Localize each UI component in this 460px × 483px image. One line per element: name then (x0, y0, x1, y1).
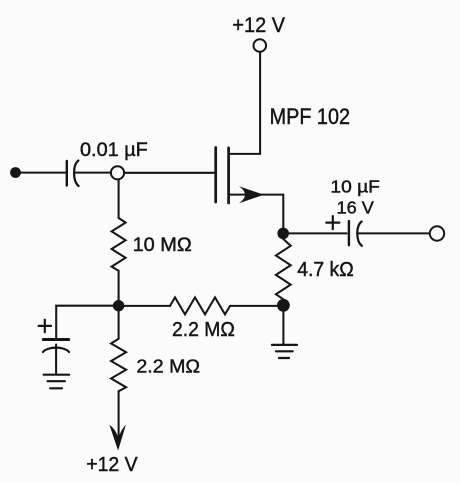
wire C1 to gate node (75, 172, 111, 174)
output terminal (430, 226, 444, 240)
wire junction down to R2 (118, 311, 120, 339)
R2 value label 2.2 MΩ (136, 356, 200, 377)
wire node C to ground (282, 311, 284, 344)
svg-text:+12 V: +12 V (86, 453, 138, 476)
svg-text:10 µF: 10 µF (330, 176, 380, 196)
svg-text:0.01 µF: 0.01 µF (80, 140, 148, 161)
ground (left) (44, 375, 69, 389)
label +12 V top (232, 14, 285, 37)
wire C2 to output (358, 232, 429, 234)
supply arrow (down) (109, 425, 126, 451)
wire gate lead (124, 172, 214, 174)
node junction A (dot) (113, 300, 124, 311)
Q1 label MPF 102 (270, 104, 350, 129)
svg-text:10 MΩ: 10 MΩ (133, 235, 192, 256)
capacitor C3 electrolytic (39, 320, 69, 352)
capacitor C2 polarity plus (326, 216, 339, 229)
C2 rating label 16 V (337, 198, 374, 218)
wire input to C1 (19, 172, 66, 174)
capacitor C2 (349, 221, 362, 246)
resistor R3 2.2 Mohm horizontal (170, 297, 230, 314)
svg-text:4.7 kΩ: 4.7 kΩ (297, 259, 354, 281)
resistor R4 4.7 kohm (276, 239, 291, 299)
resistor R2 2.2 Mohm vertical (111, 339, 126, 392)
ground (right) (272, 345, 297, 358)
node B source junction (dot) (277, 228, 289, 240)
label +12 V bottom (86, 453, 138, 476)
wire C3 to ground (55, 345, 57, 375)
wire junction to C3 (56, 306, 113, 338)
svg-text:MPF 102: MPF 102 (270, 104, 350, 129)
R1 value label 10 MΩ (133, 235, 192, 256)
resistor R1 10 Mohm (112, 218, 126, 271)
transistor Q1 MPF 102 (216, 148, 284, 204)
node C bottom junction (dot) (277, 299, 290, 312)
svg-text:16 V: 16 V (337, 198, 374, 218)
wire gate node down to R1 (118, 180, 120, 219)
R3 value label 2.2 MΩ (172, 319, 235, 341)
node gate (open circle) (111, 166, 124, 179)
wire R1 to junction (118, 271, 120, 301)
wire R3 to bottom node (230, 305, 278, 307)
svg-text:+12 V: +12 V (232, 14, 285, 37)
svg-text:2.2 MΩ: 2.2 MΩ (136, 356, 200, 377)
C2 value label 10 µF (330, 176, 380, 196)
input terminal (10, 167, 21, 178)
wire node B to C2 (289, 232, 347, 234)
svg-text:2.2 MΩ: 2.2 MΩ (172, 319, 235, 341)
wire drain to +12 V terminal (259, 52, 261, 154)
R4 value label 4.7 kΩ (297, 259, 354, 281)
wire R2 to supply arrow (118, 391, 120, 439)
capacitor C1 (67, 161, 79, 187)
wire source to node B (282, 195, 284, 228)
C1 value label 0.01 µF (80, 140, 148, 161)
+12 V supply terminal (253, 39, 266, 52)
wire junction to R3 (124, 305, 170, 307)
